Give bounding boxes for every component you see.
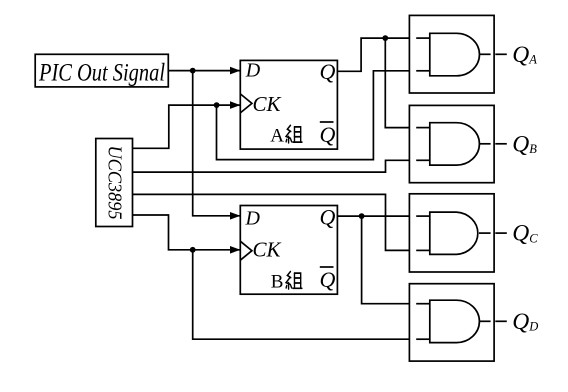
svg-text:PIC Out Signal: PIC Out Signal bbox=[38, 59, 165, 86]
svg-text:Q: Q bbox=[320, 267, 336, 292]
svg-text:CK: CK bbox=[253, 92, 282, 116]
svg-text:UCC3895: UCC3895 bbox=[104, 146, 126, 220]
svg-text:Q: Q bbox=[320, 122, 336, 147]
svg-text:A: A bbox=[270, 125, 284, 146]
svg-text:Q: Q bbox=[320, 205, 336, 230]
svg-text:D: D bbox=[245, 207, 261, 229]
svg-text:D: D bbox=[245, 59, 261, 81]
svg-text:Q: Q bbox=[320, 59, 336, 84]
svg-text:B: B bbox=[271, 271, 284, 292]
svg-text:CK: CK bbox=[253, 238, 282, 262]
